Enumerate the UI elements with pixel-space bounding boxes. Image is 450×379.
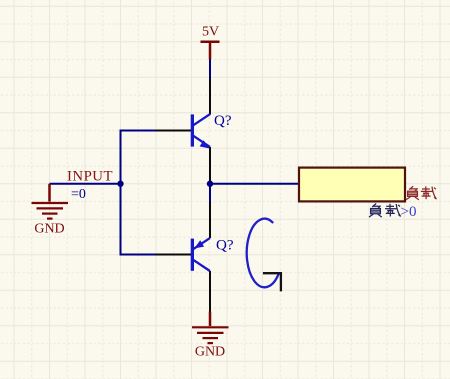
junction output node xyxy=(207,181,213,187)
power port 5V bar xyxy=(201,42,220,60)
wire output to load xyxy=(210,183,299,185)
svg-text:5V: 5V xyxy=(202,25,219,40)
annotation rotation arrow (blue curve) xyxy=(247,219,279,288)
label 负载 (load designator) xyxy=(406,186,436,200)
svg-text:Q?: Q? xyxy=(216,238,234,254)
transistor Q1 (NPN) xyxy=(156,79,211,183)
svg-text:GND: GND xyxy=(34,222,64,237)
svg-text:=0: =0 xyxy=(71,187,86,202)
transistor Q2 (PNP) xyxy=(156,203,211,312)
svg-text:>0: >0 xyxy=(401,204,417,220)
ground GND left xyxy=(32,184,69,219)
wire base top horizontal xyxy=(120,130,156,132)
label 负载>0 (comment) xyxy=(369,204,401,218)
svg-text:GND: GND xyxy=(195,345,225,360)
svg-text:Q?: Q? xyxy=(214,113,232,129)
wire 5V to Q1 collector xyxy=(209,60,211,79)
wire output down to Q2 emitter xyxy=(209,184,211,203)
junction input node xyxy=(117,181,123,187)
load rectangle xyxy=(299,168,405,202)
svg-text:INPUT: INPUT xyxy=(67,168,113,184)
ground GND bottom xyxy=(192,312,229,344)
wire base vertical xyxy=(120,130,122,256)
wire base bottom horizontal xyxy=(120,254,156,256)
annotation arrow hook (black) xyxy=(263,273,281,291)
wire input horizontal xyxy=(50,183,121,185)
